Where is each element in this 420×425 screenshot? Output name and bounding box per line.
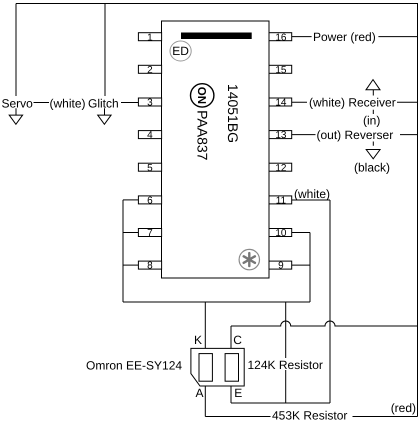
svg-text:12: 12 [275, 163, 287, 174]
svg-text:1: 1 [147, 32, 153, 43]
svg-text:13: 13 [275, 130, 287, 141]
svg-text:(white): (white) [294, 187, 330, 201]
svg-text:(white) Receiver: (white) Receiver [309, 96, 396, 110]
svg-text:14: 14 [275, 98, 287, 109]
svg-text:8: 8 [147, 261, 153, 272]
svg-text:4: 4 [147, 130, 153, 141]
svg-text:C: C [233, 333, 242, 347]
svg-text:Glitch: Glitch [88, 96, 119, 110]
svg-text:16: 16 [275, 32, 287, 43]
svg-text:A: A [196, 386, 204, 400]
svg-text:ON: ON [195, 87, 207, 104]
svg-text:9: 9 [278, 261, 284, 272]
svg-text:E: E [234, 386, 242, 400]
svg-text:(white): (white) [50, 96, 86, 110]
svg-text:6: 6 [147, 196, 153, 207]
svg-text:Power (red): Power (red) [313, 30, 376, 44]
svg-text:K: K [194, 333, 202, 347]
svg-text:Servo: Servo [2, 96, 34, 110]
svg-text:453K Resistor: 453K Resistor [272, 409, 347, 423]
svg-text:10: 10 [275, 228, 287, 239]
svg-text:(black): (black) [354, 161, 390, 175]
svg-text:(out) Reverser: (out) Reverser [317, 128, 394, 142]
svg-text:ED: ED [172, 44, 189, 58]
svg-text:5: 5 [147, 163, 153, 174]
svg-text:15: 15 [275, 65, 287, 76]
svg-text:(red): (red) [391, 401, 416, 415]
svg-text:124K Resistor: 124K Resistor [248, 358, 323, 372]
svg-text:14051BG: 14051BG [225, 84, 241, 143]
svg-text:Omron EE-SY124: Omron EE-SY124 [86, 358, 182, 372]
svg-text:7: 7 [147, 228, 153, 239]
svg-text:PAA837: PAA837 [194, 110, 210, 161]
svg-text:11: 11 [276, 196, 287, 207]
svg-text:2: 2 [147, 65, 153, 76]
svg-text:(in): (in) [363, 113, 380, 127]
svg-text:3: 3 [147, 98, 153, 109]
